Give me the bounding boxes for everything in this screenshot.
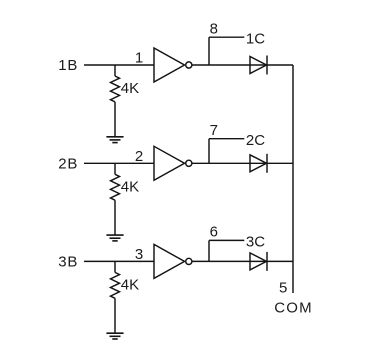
inverter A3	[154, 244, 185, 278]
svg-text:5: 5	[279, 280, 287, 297]
inverter A3 output bubble	[186, 258, 192, 264]
resistor R1 4K	[111, 76, 120, 102]
wire: resistor R2 to ground	[114, 200, 116, 235]
wire: resistor R3 to ground	[114, 298, 116, 333]
diode D2	[250, 154, 267, 173]
diode D3	[250, 252, 267, 271]
inverter A2 output bubble	[186, 160, 192, 166]
wire: junction to resistor R2	[114, 163, 116, 174]
svg-text:3: 3	[135, 246, 143, 263]
svg-text:7: 7	[210, 122, 218, 139]
svg-text:4K: 4K	[121, 80, 139, 97]
wire: resistor R1 to ground	[114, 102, 116, 137]
inverter A1 output bubble	[186, 62, 192, 68]
inverter A1	[154, 48, 185, 82]
svg-text:3C: 3C	[246, 234, 265, 251]
wire: junction to resistor R1	[114, 65, 116, 76]
diode D1	[250, 56, 267, 75]
svg-text:1C: 1C	[246, 31, 265, 48]
svg-text:3B: 3B	[58, 254, 78, 271]
svg-text:8: 8	[210, 20, 218, 37]
wire: pin 7 top to 2C	[209, 138, 244, 140]
wire: junction to resistor R3	[114, 261, 116, 272]
wire: pin 8 top to 1C	[209, 36, 244, 38]
ground GND2	[106, 235, 123, 241]
wire: inverter A1 output to diode D1 and COM rail	[192, 64, 293, 66]
svg-text:4K: 4K	[121, 178, 139, 195]
svg-text:COM: COM	[274, 300, 313, 317]
wire: inverter A3 output to diode D3 and COM rail	[192, 260, 293, 262]
svg-text:1B: 1B	[58, 57, 78, 74]
resistor R3 4K	[111, 272, 120, 298]
svg-text:2B: 2B	[58, 156, 78, 173]
svg-text:4K: 4K	[121, 276, 139, 293]
wire: inverter A2 output to diode D2 and COM rail	[192, 162, 293, 164]
inverter A2	[154, 146, 185, 180]
ground GND1	[106, 137, 123, 143]
svg-text:6: 6	[210, 224, 218, 241]
wire: 3B input to inverter A3	[84, 260, 154, 262]
wire: pin 7 riser	[208, 139, 210, 164]
wire: pin 6 top to 3C	[209, 239, 244, 241]
ground GND3	[106, 333, 123, 339]
svg-text:2: 2	[135, 148, 143, 165]
wire: 2B input to inverter A2	[84, 162, 154, 164]
svg-text:1: 1	[135, 50, 143, 67]
wire: pin 8 riser	[208, 37, 210, 65]
resistor R2 4K	[111, 174, 120, 200]
wire: 1B input to inverter A1	[84, 64, 154, 66]
wire: pin 6 riser	[208, 240, 210, 261]
svg-text:2C: 2C	[246, 132, 265, 149]
wire: COM rail	[292, 65, 294, 293]
